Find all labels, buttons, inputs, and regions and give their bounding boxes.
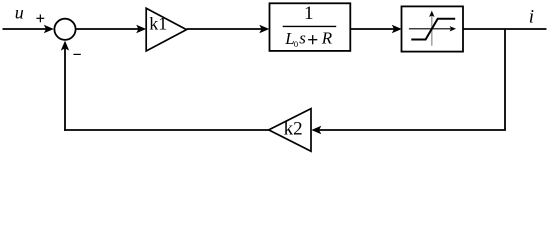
wire: transfer-function block to saturation block (351, 25, 402, 33)
svg-text:s: s (299, 29, 306, 48)
wire: input u to summing junction (3, 25, 54, 33)
svg-text:k2: k2 (284, 119, 303, 140)
transfer-function block 1/(L0 s + R) (270, 3, 351, 51)
wire: feedback drop from output junction (504, 29, 506, 130)
saturation symbol: horizontal axis with arrowhead (409, 26, 456, 31)
wire: k2 to bottom left corner (64, 129, 269, 131)
gain block k1 (triangle) (146, 8, 186, 51)
svg-text:R: R (321, 29, 333, 48)
minus sign at summing junction (73, 53, 80, 55)
saturation symbol: limiter curve (411, 19, 455, 40)
saturation symbol: vertical axis (gray) with arrowhead (429, 11, 434, 46)
wire: feedback bottom right to k2 (311, 126, 506, 134)
svg-text:u: u (15, 2, 24, 22)
wire: k1 to transfer-function block (187, 25, 270, 33)
svg-text:0: 0 (294, 39, 298, 49)
svg-text:k1: k1 (149, 14, 167, 34)
node u (input label) (15, 2, 24, 22)
gain block k2 (triangle, pointing left) (269, 109, 311, 152)
svg-text:i: i (529, 6, 534, 27)
wire: bottom left up to summing junction (61, 41, 69, 131)
plus sign at summing junction (36, 14, 44, 22)
wire: summing junction to k1 (76, 25, 146, 33)
saturation block (402, 6, 464, 51)
node i (output label) (529, 6, 534, 27)
wire: saturation block to output (463, 28, 547, 30)
svg-text:1: 1 (304, 3, 314, 24)
summing junction circle (54, 19, 75, 40)
